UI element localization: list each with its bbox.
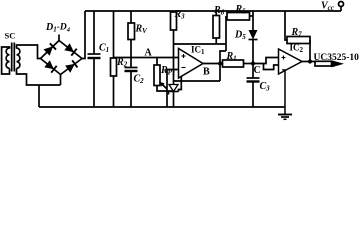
wire primary loop	[2, 47, 10, 74]
wire bottom ground rail	[39, 106, 285, 108]
ground	[278, 114, 292, 116]
wire bridge bottom stub	[60, 75, 62, 86]
wire C1 top	[93, 11, 95, 55]
wire R5 branch to node B	[220, 51, 226, 64]
wire B vertical	[219, 64, 221, 82]
svg-text:SC: SC	[5, 31, 16, 41]
output connector box	[315, 61, 332, 66]
resistor RV	[128, 23, 135, 40]
wire node C to IC2 inverting input	[264, 64, 279, 70]
capacitor C3	[247, 77, 260, 79]
wire R5 right	[250, 15, 254, 17]
resistor R6	[213, 16, 220, 39]
wire zener bottom	[173, 92, 175, 108]
wire left drop to bottom rail	[38, 85, 40, 107]
zener diode DZ	[169, 85, 178, 92]
wire node A line	[114, 57, 180, 59]
wire R7 right	[309, 40, 311, 62]
node B	[218, 61, 222, 65]
Vcc terminal	[340, 7, 342, 12]
wire C1 bottom	[93, 58, 95, 107]
resistor R5	[227, 13, 250, 21]
wire D5 to node C	[252, 40, 254, 64]
op-amp IC2	[279, 49, 303, 74]
svg-text:UC3525-10: UC3525-10	[314, 53, 360, 63]
wire secondary top lead	[17, 45, 41, 59]
wire R6 stub	[215, 11, 217, 16]
svg-text:B: B	[203, 67, 210, 78]
wire node C to IC2	[253, 58, 279, 64]
diode D3 lower-left arm	[41, 59, 61, 75]
transformer T primary winding	[6, 48, 9, 68]
wire bridge right to top rail	[82, 11, 85, 59]
svg-text:A: A	[145, 47, 153, 58]
transformer core	[11, 43, 13, 72]
wire IC1 inverting input	[167, 70, 179, 108]
wire IC1 output to R1	[203, 63, 223, 65]
node C	[251, 61, 255, 65]
wire R5 left	[225, 16, 227, 51]
wire secondary bottom lead	[17, 68, 61, 85]
resistor R7	[287, 37, 310, 44]
wire C2 top	[130, 58, 132, 68]
capacitor C1	[88, 53, 101, 55]
wire hysteresis node	[174, 43, 227, 45]
wire IC2 ground pin	[284, 71, 286, 114]
wire top supply rail	[85, 10, 341, 12]
resistor R1	[223, 60, 244, 67]
wire RV bottom	[130, 40, 132, 58]
capacitor C2	[125, 67, 138, 69]
wire R3 to zener vertical	[173, 30, 175, 85]
wire RP1 bottom	[157, 86, 174, 92]
wire C2 bottom	[130, 71, 132, 107]
potentiometer RP1 wiper arrow	[162, 84, 168, 89]
op-amp IC1	[179, 49, 204, 79]
wire R3 stub	[173, 11, 175, 13]
svg-text:C: C	[254, 65, 261, 76]
wire D5 column top	[252, 11, 254, 31]
diode D1 upper-left arm	[41, 41, 60, 59]
wire R6 bottom	[215, 38, 217, 44]
diode D5	[249, 30, 258, 40]
wire R1 right	[244, 63, 254, 65]
wire R7 left from rail	[285, 11, 288, 41]
diode D4 lower-right arm	[61, 59, 83, 75]
potentiometer RP1	[154, 65, 160, 86]
wire bridge top stub	[58, 35, 60, 41]
output arrow	[332, 60, 345, 67]
wire zener cathode to IC1 bottom pin	[179, 76, 182, 91]
wire C3 top	[252, 64, 254, 79]
wire RP1 top	[156, 58, 158, 66]
wire R2 column top	[113, 11, 115, 59]
wire RV top	[130, 11, 132, 23]
diode D2 upper-right arm	[59, 41, 82, 59]
resistor R3	[171, 12, 177, 30]
transformer secondary winding	[17, 48, 20, 68]
wire R2 bottom	[113, 76, 115, 107]
wire feedback B to zener column	[174, 80, 221, 82]
wire IC2 output	[302, 61, 315, 63]
wire C3 bottom	[252, 82, 254, 108]
resistor R2	[111, 58, 117, 76]
